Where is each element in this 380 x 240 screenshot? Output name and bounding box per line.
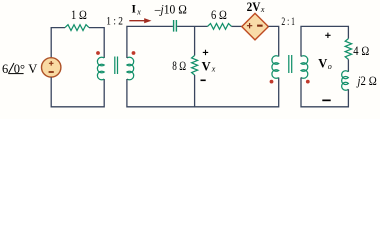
wire 6ohm to diamond [232,25,242,27]
T1 dot secondary [132,51,136,55]
wire R8 bottom [194,75,196,107]
annotation minus Vo [322,100,330,102]
wire right loop bottom [301,78,348,107]
capacitor C -j10 [174,20,177,32]
wire left loop bottom [51,77,104,107]
svg-text:8 Ω: 8 Ω [172,59,186,73]
svg-text:o: o [328,62,332,71]
voltage source Vs 6 angle 0 [42,58,61,77]
T2 core [289,55,292,73]
resistor R 4ohm [345,39,351,60]
T1 core [115,57,118,75]
T2 dot secondary [306,80,310,84]
resistor R 6ohm [208,24,232,30]
T2 secondary coil [301,56,308,79]
svg-text:6: 6 [2,62,8,76]
svg-text:4 Ω: 4 Ω [353,44,369,58]
svg-text:1 Ω: 1 Ω [71,8,87,22]
current arrow Ix [129,18,151,23]
svg-text:I: I [132,3,137,15]
svg-text:x: x [260,5,265,14]
wire diamond to T2 [268,26,278,56]
annotation plus Vx [203,50,208,55]
T2 dot primary [270,80,274,84]
svg-text:j2 Ω: j2 Ω [356,74,377,88]
svg-text:1 : 2: 1 : 2 [106,14,123,28]
resistor R 8ohm [192,56,198,76]
dependent source 2Vx diamond [242,13,269,40]
svg-text:V: V [28,62,37,76]
wire between R4 and L [347,59,349,71]
svg-text:V: V [202,59,211,73]
svg-text:V: V [318,57,327,71]
T1 primary coil [97,57,104,80]
wire cap to 6ohm with node [177,25,207,27]
svg-text:–j10 Ω: –j10 Ω [154,3,187,17]
resistor R 1ohm [65,25,89,31]
T1 secondary coil [127,57,134,80]
wire top to T1 [89,28,104,58]
svg-text:x: x [211,64,216,73]
wire left loop top [51,28,65,58]
annotation minus Vx [201,80,206,82]
svg-text:2V: 2V [247,0,261,14]
T1 dot primary [96,51,100,55]
annotation plus Vo [325,33,330,38]
wire middle bottom [127,78,279,107]
wire node down to R 8ohm [194,26,196,55]
svg-text:x: x [136,7,141,16]
T2 primary coil [272,56,279,79]
inductor L j2 [342,71,349,91]
svg-text:2 : 1: 2 : 1 [281,14,295,28]
wire right loop top [301,26,348,56]
svg-text:6 Ω: 6 Ω [211,8,227,22]
label 6 angle 0 V [2,62,37,76]
wire T1 secondary up and right [127,26,173,58]
